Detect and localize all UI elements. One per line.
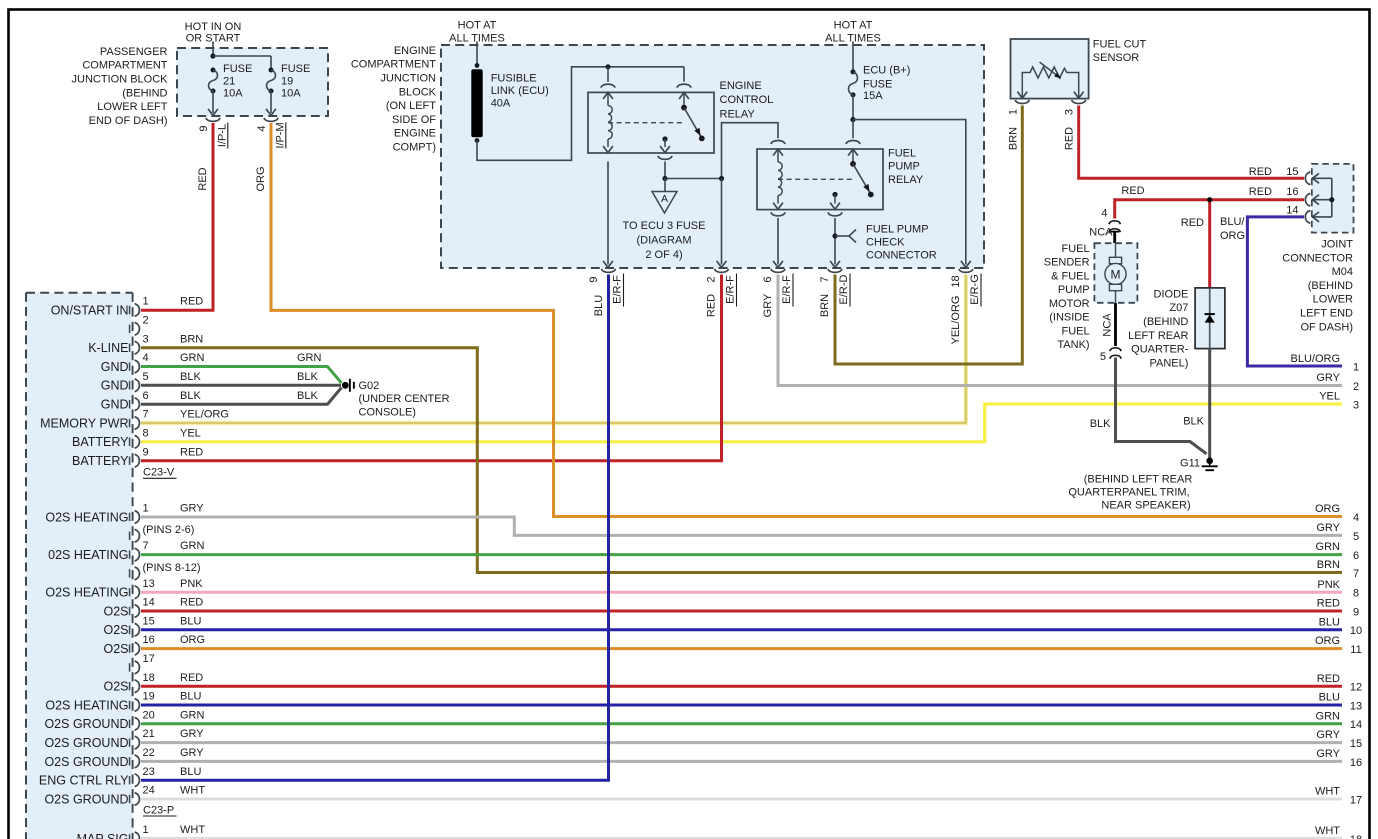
fuse 21 10A bbox=[211, 68, 216, 73]
wire YEL battery run bbox=[141, 404, 1342, 442]
svg-text:1: 1 bbox=[143, 824, 149, 836]
svg-text:GND: GND bbox=[101, 360, 129, 374]
svg-text:FUEL: FUEL bbox=[888, 147, 916, 159]
svg-text:1: 1 bbox=[1007, 109, 1019, 115]
svg-text:2: 2 bbox=[706, 276, 718, 282]
connector FPR common female bbox=[828, 212, 842, 216]
wire ECR common down bbox=[664, 162, 666, 179]
connector C23-P pin 7 bbox=[129, 550, 131, 558]
svg-text:18: 18 bbox=[950, 275, 962, 287]
wire BLU eng-ctrl-rly run bbox=[141, 275, 609, 781]
wire ECR coil output to E/R-F 9 bbox=[607, 162, 609, 265]
fuel cut sensor box bbox=[1011, 39, 1089, 99]
svg-text:11: 11 bbox=[1350, 644, 1361, 656]
svg-text:GRN: GRN bbox=[1316, 710, 1341, 722]
svg-text:TO ECU 3 FUSE: TO ECU 3 FUSE bbox=[623, 220, 706, 232]
svg-text:BLK: BLK bbox=[180, 390, 201, 402]
connector C23-P pin (2-6) bbox=[129, 532, 131, 540]
svg-text:O2S: O2S bbox=[103, 680, 128, 694]
svg-text:C23-V: C23-V bbox=[143, 467, 175, 479]
node relay supply junction bbox=[605, 64, 610, 69]
svg-text:I/P-L: I/P-L bbox=[217, 124, 229, 147]
triangle ref A (to ECU 3 fuse) bbox=[664, 179, 666, 192]
motor M symbol bbox=[1115, 243, 1117, 257]
svg-text:GRN: GRN bbox=[180, 352, 205, 364]
svg-text:RED: RED bbox=[1249, 166, 1272, 178]
svg-text:21: 21 bbox=[223, 76, 235, 88]
svg-text:GRY: GRY bbox=[1316, 522, 1340, 534]
svg-text:YEL/ORG: YEL/ORG bbox=[180, 409, 229, 421]
svg-text:BRN: BRN bbox=[1007, 127, 1019, 150]
connector C23-P pin 18 bbox=[129, 682, 131, 690]
wire GRY o2s-heating-1 run bbox=[141, 517, 1342, 535]
svg-text:BLK: BLK bbox=[1183, 415, 1204, 427]
svg-text:O2S GROUND: O2S GROUND bbox=[44, 736, 128, 750]
svg-text:4: 4 bbox=[256, 125, 268, 131]
svg-text:YEL: YEL bbox=[1319, 391, 1340, 403]
svg-text:1: 1 bbox=[143, 503, 149, 515]
wire BLU/ORG joint connector 14 bbox=[1247, 217, 1342, 366]
svg-text:RED: RED bbox=[197, 167, 209, 190]
svg-text:LEFT REAR: LEFT REAR bbox=[1128, 330, 1188, 342]
svg-text:FUEL: FUEL bbox=[1061, 243, 1089, 255]
svg-text:15: 15 bbox=[1350, 738, 1362, 750]
wire GRN o2s-ground-20 run bbox=[141, 722, 1342, 725]
svg-text:PANEL): PANEL) bbox=[1149, 357, 1188, 369]
connector fuel cut sensor pin 1 female bbox=[1015, 100, 1029, 104]
svg-text:RED: RED bbox=[1121, 185, 1144, 197]
svg-text:TANK): TANK) bbox=[1057, 339, 1089, 351]
pin 5 inline connector bbox=[1110, 348, 1121, 351]
svg-text:(PINS 8-12): (PINS 8-12) bbox=[143, 562, 201, 574]
svg-text:CONNECTOR: CONNECTOR bbox=[866, 250, 937, 262]
svg-text:PNK: PNK bbox=[180, 578, 203, 590]
svg-text:WHT: WHT bbox=[1315, 825, 1340, 837]
fuse 19 10A bbox=[270, 56, 272, 70]
connector C23-P pin 17 bbox=[129, 663, 131, 671]
svg-text:LEFT END: LEFT END bbox=[1300, 308, 1353, 320]
svg-text:12: 12 bbox=[1350, 682, 1362, 694]
connector M04 pin 16 bbox=[1305, 193, 1310, 206]
svg-text:14: 14 bbox=[143, 597, 155, 609]
svg-text:RED: RED bbox=[1181, 217, 1204, 229]
connector E/R-G 18 female bbox=[959, 269, 973, 273]
svg-text:7: 7 bbox=[819, 276, 831, 282]
fusible link (ECU) 40A bbox=[475, 63, 480, 68]
svg-text:NCA: NCA bbox=[1089, 226, 1113, 238]
svg-text:SENSOR: SENSOR bbox=[1093, 52, 1140, 64]
svg-text:9: 9 bbox=[588, 276, 600, 282]
svg-text:MEMORY PWR: MEMORY PWR bbox=[40, 416, 128, 430]
connector C23-V pin 8 bbox=[129, 438, 131, 446]
svg-text:10: 10 bbox=[1350, 625, 1362, 637]
svg-text:HOT AT: HOT AT bbox=[458, 19, 497, 31]
svg-text:M04: M04 bbox=[1332, 266, 1353, 278]
svg-text:RED: RED bbox=[1064, 127, 1076, 150]
svg-text:9: 9 bbox=[143, 446, 149, 458]
svg-text:ORG: ORG bbox=[255, 166, 267, 191]
svg-text:BLU: BLU bbox=[593, 295, 605, 316]
connector C23-P pin 15 bbox=[129, 626, 131, 634]
svg-text:BLK: BLK bbox=[297, 371, 318, 383]
svg-text:LINK (ECU): LINK (ECU) bbox=[491, 85, 549, 97]
node ECR output junction bbox=[662, 176, 667, 181]
wire hot-in-on feed stub bbox=[212, 42, 214, 57]
svg-text:1: 1 bbox=[143, 296, 149, 308]
joint connector M04 box (dashed) bbox=[1312, 164, 1354, 233]
svg-text:ENGINE: ENGINE bbox=[394, 45, 436, 57]
svg-text:ORG: ORG bbox=[180, 634, 205, 646]
connector C23-P pin 1 bbox=[129, 513, 131, 521]
svg-text:YEL: YEL bbox=[180, 427, 201, 439]
ECR switch contact bbox=[681, 105, 687, 111]
svg-text:1: 1 bbox=[1353, 361, 1359, 373]
svg-text:GRY: GRY bbox=[180, 503, 204, 515]
svg-text:17: 17 bbox=[143, 653, 155, 665]
wire GRY o2s-ground-22 run bbox=[141, 760, 1342, 763]
pin 4 inline connector bbox=[1109, 221, 1120, 224]
svg-text:GND: GND bbox=[101, 398, 129, 412]
svg-text:BLU: BLU bbox=[180, 615, 201, 627]
svg-text:21: 21 bbox=[143, 728, 155, 740]
wire hot-at-all-times feed (left) bbox=[476, 42, 478, 66]
ECR coil bbox=[608, 106, 612, 140]
svg-text:O2S: O2S bbox=[103, 623, 128, 637]
svg-text:BLU: BLU bbox=[1319, 692, 1340, 704]
connector ECR switch top female bbox=[677, 84, 691, 88]
svg-text:SIDE OF: SIDE OF bbox=[392, 114, 436, 126]
wire ORG fuse-19 run bbox=[271, 123, 1342, 517]
svg-text:16: 16 bbox=[143, 634, 155, 646]
node fuel pump check tap bbox=[832, 233, 837, 238]
svg-text:(DIAGRAM: (DIAGRAM bbox=[637, 235, 692, 247]
wire RED battery run bbox=[141, 275, 722, 461]
svg-text:E/R-F: E/R-F bbox=[612, 275, 624, 304]
svg-text:FUSE: FUSE bbox=[863, 79, 892, 91]
wire BRN k-line run bbox=[141, 348, 1342, 573]
svg-text:6: 6 bbox=[762, 276, 774, 282]
connector ECR common female bbox=[658, 156, 672, 160]
svg-text:10A: 10A bbox=[223, 88, 243, 100]
fuel cut sensor pin arrows bbox=[1017, 92, 1027, 99]
svg-text:END OF DASH): END OF DASH) bbox=[89, 115, 168, 127]
svg-text:3: 3 bbox=[143, 333, 149, 345]
svg-text:GRY: GRY bbox=[1316, 372, 1340, 384]
connector C23-P pin 24 bbox=[129, 795, 131, 803]
svg-text:GRN: GRN bbox=[180, 709, 205, 721]
svg-text:E/R-F: E/R-F bbox=[781, 275, 793, 304]
wire GRY fuel-pump-relay coil return bbox=[778, 275, 1342, 386]
svg-text:(BEHIND LEFT REAR: (BEHIND LEFT REAR bbox=[1084, 474, 1193, 486]
connector C23-P pin map1 bbox=[129, 834, 131, 839]
svg-text:RED: RED bbox=[180, 446, 203, 458]
svg-text:BATTERY: BATTERY bbox=[72, 454, 129, 468]
wire NCA motor top bbox=[1113, 232, 1116, 243]
svg-text:15: 15 bbox=[143, 615, 155, 627]
svg-text:GRY: GRY bbox=[180, 728, 204, 740]
wire YEL/ORG memory-pwr run bbox=[141, 275, 966, 424]
wire to ECR coil bbox=[607, 67, 609, 82]
svg-text:CONTROL: CONTROL bbox=[720, 94, 774, 106]
svg-text:4: 4 bbox=[1101, 207, 1107, 219]
connector C23-P pin 13 bbox=[129, 588, 131, 596]
wire ECR output to fuel pump relay coil bbox=[665, 178, 722, 180]
svg-text:OF DASH): OF DASH) bbox=[1300, 321, 1353, 333]
svg-text:WHT: WHT bbox=[180, 785, 205, 797]
svg-text:2 OF 4): 2 OF 4) bbox=[645, 249, 682, 261]
svg-text:5: 5 bbox=[1353, 531, 1359, 543]
FPR coil bbox=[778, 162, 782, 196]
svg-text:JUNCTION BLOCK: JUNCTION BLOCK bbox=[72, 74, 169, 86]
svg-text:COMPARTMENT: COMPARTMENT bbox=[82, 60, 167, 72]
svg-text:(UNDER CENTER: (UNDER CENTER bbox=[359, 393, 450, 405]
wire ORG o2s-16 run bbox=[141, 647, 1342, 650]
wire BLK motor ground bbox=[1116, 358, 1207, 454]
svg-text:13: 13 bbox=[1350, 700, 1362, 712]
svg-text:FUEL CUT: FUEL CUT bbox=[1093, 39, 1147, 51]
svg-text:YEL/ORG: YEL/ORG bbox=[950, 296, 962, 345]
svg-text:24: 24 bbox=[143, 785, 155, 797]
svg-text:MAP SIG: MAP SIG bbox=[77, 832, 129, 839]
svg-text:ORG: ORG bbox=[1315, 503, 1340, 515]
node M04 bus junction bbox=[1329, 197, 1334, 202]
engine compartment junction block (dashed box) bbox=[441, 45, 984, 268]
svg-text:Z07: Z07 bbox=[1169, 302, 1188, 314]
svg-text:(INSIDE: (INSIDE bbox=[1049, 312, 1089, 324]
svg-text:RED: RED bbox=[706, 294, 718, 317]
svg-text:O2S GROUND: O2S GROUND bbox=[44, 792, 128, 806]
svg-text:COMPT): COMPT) bbox=[393, 142, 436, 154]
svg-text:22: 22 bbox=[143, 747, 155, 759]
connector C23-P pin 23 bbox=[129, 776, 131, 784]
svg-text:LOWER LEFT: LOWER LEFT bbox=[97, 101, 168, 113]
wire RED diode feed bbox=[1208, 200, 1211, 289]
passenger compartment junction block (dashed box) bbox=[177, 48, 328, 116]
wire to E/R-G 18 bbox=[853, 120, 966, 265]
svg-text:(BEHIND: (BEHIND bbox=[1143, 316, 1188, 328]
svg-text:15A: 15A bbox=[863, 90, 883, 102]
connector fuel cut sensor pin 3 female bbox=[1072, 100, 1086, 104]
wire ECR node to E/R-F 2 bbox=[721, 179, 723, 265]
svg-text:2: 2 bbox=[143, 314, 149, 326]
diode Z07 box bbox=[1195, 288, 1225, 349]
svg-text:COMPARTMENT: COMPARTMENT bbox=[351, 59, 436, 71]
svg-text:BLK: BLK bbox=[297, 390, 318, 402]
svg-text:QUARTER-: QUARTER- bbox=[1131, 344, 1189, 356]
svg-text:K-LINE: K-LINE bbox=[88, 341, 128, 355]
svg-text:BLU: BLU bbox=[180, 691, 201, 703]
connector E/R-F 6 female bbox=[771, 269, 785, 273]
ECM connector box (dashed, left) bbox=[26, 293, 133, 839]
connector C23-P pin 21 bbox=[129, 738, 131, 746]
svg-text:7: 7 bbox=[143, 409, 149, 421]
svg-text:14: 14 bbox=[1286, 205, 1298, 217]
svg-text:BRN: BRN bbox=[819, 294, 831, 317]
svg-text:BLU/ORG: BLU/ORG bbox=[1290, 353, 1340, 365]
engine control relay box bbox=[588, 92, 714, 153]
svg-text:GND: GND bbox=[101, 379, 129, 393]
node RED junction at diode bbox=[1207, 197, 1212, 202]
svg-text:ORG: ORG bbox=[1315, 635, 1340, 647]
svg-text:E/R-D: E/R-D bbox=[838, 274, 850, 304]
svg-text:40A: 40A bbox=[491, 97, 511, 109]
connector C23-V pin 1 bbox=[129, 306, 131, 314]
svg-text:JOINT: JOINT bbox=[1321, 239, 1353, 251]
svg-text:A: A bbox=[661, 193, 668, 205]
connector C23-V pin 5 bbox=[129, 381, 131, 389]
svg-text:QUARTERPANEL TRIM,: QUARTERPANEL TRIM, bbox=[1068, 487, 1189, 499]
svg-text:CONSOLE): CONSOLE) bbox=[359, 406, 416, 418]
svg-text:3: 3 bbox=[1064, 109, 1076, 115]
wire hot-at-all-times feed (right) bbox=[852, 42, 854, 72]
svg-text:CHECK: CHECK bbox=[866, 237, 905, 249]
svg-text:ON/START IN: ON/START IN bbox=[51, 303, 129, 317]
svg-text:19: 19 bbox=[143, 691, 155, 703]
svg-text:FUEL: FUEL bbox=[1061, 325, 1089, 337]
wire fuse 15A output bbox=[852, 95, 854, 120]
fuel pump relay box bbox=[757, 149, 883, 210]
connector C23-P pin 22 bbox=[129, 757, 131, 765]
svg-text:PUMP: PUMP bbox=[888, 161, 920, 173]
svg-text:23: 23 bbox=[143, 766, 155, 778]
svg-text:RED: RED bbox=[1317, 598, 1340, 610]
svg-text:CONNECTOR: CONNECTOR bbox=[1282, 252, 1353, 264]
svg-text:NCA: NCA bbox=[1102, 313, 1114, 337]
svg-text:RED: RED bbox=[1317, 673, 1340, 685]
svg-text:02S HEATING: 02S HEATING bbox=[48, 548, 128, 562]
connector C23-V pin 3 bbox=[129, 344, 131, 352]
svg-text:C23-P: C23-P bbox=[143, 804, 174, 816]
connector C23-P pin (8-12) bbox=[129, 569, 131, 577]
svg-text:5: 5 bbox=[143, 371, 149, 383]
connector I/P-L female bbox=[206, 118, 220, 122]
wire fuse 21 output bbox=[212, 91, 214, 113]
wire BLK gnd pin 6 bbox=[141, 388, 342, 405]
svg-text:GRY: GRY bbox=[762, 293, 774, 317]
wire to FPR switch bbox=[852, 120, 854, 139]
svg-text:HOT IN ON: HOT IN ON bbox=[185, 21, 242, 33]
svg-text:(BEHIND: (BEHIND bbox=[1308, 280, 1353, 292]
svg-text:BLK: BLK bbox=[180, 371, 201, 383]
svg-text:O2S GROUND: O2S GROUND bbox=[44, 717, 128, 731]
svg-text:PASSENGER: PASSENGER bbox=[100, 46, 168, 58]
wire fuse 19 branch bbox=[213, 55, 271, 57]
wire BRN fuel cut sensor supply bbox=[835, 106, 1022, 365]
connector C23-V pin 9 bbox=[129, 457, 131, 465]
svg-text:18: 18 bbox=[1350, 834, 1362, 839]
svg-text:(ON LEFT: (ON LEFT bbox=[386, 100, 436, 112]
wire BLU o2s-15 run bbox=[141, 628, 1342, 631]
svg-text:O2S: O2S bbox=[103, 604, 128, 618]
svg-text:GRN: GRN bbox=[180, 540, 205, 552]
wire RED fuel cut sensor signal bbox=[1079, 106, 1304, 179]
svg-text:7: 7 bbox=[1353, 568, 1359, 580]
svg-text:PUMP: PUMP bbox=[1058, 284, 1090, 296]
svg-text:BLOCK: BLOCK bbox=[399, 86, 437, 98]
svg-text:RED: RED bbox=[180, 672, 203, 684]
svg-text:LOWER: LOWER bbox=[1313, 294, 1353, 306]
node ECR output corner bbox=[719, 176, 724, 181]
svg-text:G02: G02 bbox=[359, 380, 380, 392]
connector C23-P pin 14 bbox=[129, 607, 131, 615]
svg-text:GRN: GRN bbox=[297, 352, 322, 364]
connector C23-P pin 16 bbox=[129, 644, 131, 652]
connector ECR coil top female bbox=[601, 84, 615, 88]
svg-text:BLK: BLK bbox=[1090, 418, 1111, 430]
wire fusible link to relay supply bbox=[477, 67, 684, 161]
connector M04 pin 15 bbox=[1305, 172, 1310, 185]
svg-text:WHT: WHT bbox=[1315, 786, 1340, 798]
wire FPR coil output to E/R-F 6 bbox=[771, 212, 785, 216]
svg-text:9: 9 bbox=[1353, 606, 1359, 618]
connector C23-P pin 20 bbox=[129, 720, 131, 728]
wire BLU o2s-19 run bbox=[141, 704, 1342, 707]
ground G02 (bolt) bbox=[342, 382, 349, 389]
ECR coil pin arrow bbox=[603, 92, 613, 99]
svg-text:FUSE: FUSE bbox=[281, 63, 310, 75]
svg-text:DIODE: DIODE bbox=[1154, 288, 1189, 300]
node fuse 15A junction bbox=[850, 117, 855, 122]
FPR coil bottom arrow bbox=[777, 196, 779, 204]
svg-text:BLU: BLU bbox=[180, 766, 201, 778]
connector E/R-F 2 female bbox=[715, 269, 729, 273]
svg-text:M: M bbox=[1111, 268, 1121, 282]
svg-text:FUSIBLE: FUSIBLE bbox=[491, 72, 537, 84]
svg-text:10A: 10A bbox=[281, 88, 301, 100]
svg-text:3: 3 bbox=[1353, 399, 1359, 411]
wire FPR common down bbox=[834, 218, 836, 265]
svg-text:ENG CTRL RLY: ENG CTRL RLY bbox=[39, 774, 129, 788]
svg-text:O2S: O2S bbox=[103, 642, 128, 656]
connector C23-V pin 7 bbox=[129, 419, 131, 427]
svg-text:ORG: ORG bbox=[1220, 230, 1245, 242]
svg-text:RELAY: RELAY bbox=[720, 108, 756, 120]
FPR coil pin arrow bbox=[773, 149, 783, 156]
ECR switch pin arrow bbox=[679, 92, 689, 99]
fuel pump motor box (dashed) bbox=[1094, 243, 1137, 303]
svg-text:O2S HEATING: O2S HEATING bbox=[45, 586, 128, 600]
wire WHT map-sig run bbox=[141, 837, 1342, 839]
svg-text:GRN: GRN bbox=[1316, 541, 1341, 553]
ECR common pole bbox=[662, 136, 667, 141]
connector I/P-M female bbox=[264, 118, 278, 122]
svg-text:O2S HEATING: O2S HEATING bbox=[45, 510, 128, 524]
svg-text:GRY: GRY bbox=[1316, 729, 1340, 741]
wire GRY o2s-ground-21 run bbox=[141, 741, 1342, 744]
wire BLK diode ground bbox=[1208, 349, 1211, 458]
wire NCA motor bottom bbox=[1114, 303, 1117, 346]
ECR armature dashed link bbox=[608, 122, 684, 124]
connector M04 pin 14 bbox=[1305, 211, 1310, 224]
svg-text:GRY: GRY bbox=[1316, 748, 1340, 760]
svg-text:ENGINE: ENGINE bbox=[394, 128, 436, 140]
svg-text:BLU: BLU bbox=[1319, 616, 1340, 628]
svg-text:ECU (B+): ECU (B+) bbox=[863, 65, 910, 77]
FPR switch pin arrow bbox=[848, 149, 858, 156]
connector FPR switch top female bbox=[846, 141, 860, 145]
svg-text:2: 2 bbox=[1353, 381, 1359, 393]
svg-text:ENGINE: ENGINE bbox=[720, 80, 762, 92]
connector C23-V pin 4 bbox=[129, 362, 131, 370]
wire RED o2s-18 run bbox=[141, 685, 1342, 688]
wire WHT o2s-ground-24 run bbox=[141, 798, 1342, 801]
svg-text:JUNCTION: JUNCTION bbox=[380, 73, 436, 85]
svg-text:5: 5 bbox=[1100, 351, 1106, 363]
svg-text:RELAY: RELAY bbox=[888, 174, 924, 186]
svg-text:RED: RED bbox=[1249, 186, 1272, 198]
svg-text:RED: RED bbox=[180, 597, 203, 609]
svg-text:15: 15 bbox=[1286, 166, 1298, 178]
